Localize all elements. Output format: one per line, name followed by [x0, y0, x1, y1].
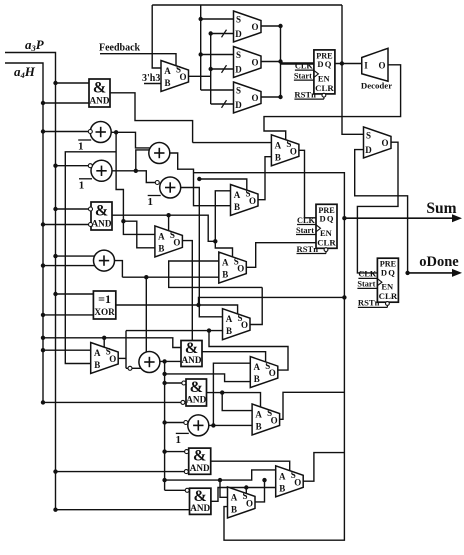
- svg-text:A: A: [255, 410, 262, 420]
- svg-text:B: B: [94, 360, 100, 370]
- svg-text:O: O: [294, 477, 301, 487]
- svg-text:A: A: [275, 140, 282, 150]
- svg-text:D: D: [381, 267, 387, 277]
- svg-text:EN: EN: [320, 228, 333, 238]
- svg-text:Start: Start: [296, 226, 314, 235]
- svg-text:S: S: [236, 50, 241, 60]
- svg-text:D: D: [235, 65, 242, 75]
- svg-text:RSTn: RSTn: [358, 298, 380, 308]
- svg-text:CLR: CLR: [317, 237, 336, 247]
- svg-text:S: S: [236, 15, 241, 25]
- svg-text:A: A: [226, 314, 233, 324]
- svg-text:B: B: [279, 483, 285, 493]
- svg-text:O: O: [173, 237, 180, 247]
- svg-text:RSTn: RSTn: [297, 244, 319, 254]
- svg-text:O: O: [251, 93, 258, 103]
- svg-text:A: A: [158, 231, 165, 241]
- svg-text:AND: AND: [186, 395, 206, 405]
- svg-text:Q: Q: [388, 267, 395, 277]
- svg-text:A: A: [222, 258, 229, 268]
- svg-text:B: B: [158, 243, 164, 253]
- svg-text:B: B: [222, 270, 228, 280]
- svg-text:B: B: [231, 504, 237, 514]
- svg-text:RSTn: RSTn: [294, 89, 316, 99]
- svg-text:AND: AND: [182, 355, 202, 365]
- svg-text:CLK: CLK: [297, 216, 316, 225]
- svg-text:&: &: [93, 79, 106, 96]
- svg-text:B: B: [256, 422, 262, 432]
- svg-text:O: O: [290, 146, 297, 156]
- svg-text:A: A: [279, 471, 286, 481]
- svg-text:O: O: [179, 72, 186, 82]
- svg-text:CLR: CLR: [379, 291, 398, 301]
- svg-text:a4H: a4H: [14, 64, 36, 80]
- svg-text:D: D: [365, 145, 372, 155]
- svg-text:A: A: [231, 492, 238, 502]
- svg-text:O: O: [269, 368, 276, 378]
- svg-text:a3P: a3P: [25, 37, 45, 53]
- svg-text:Feedback: Feedback: [99, 43, 141, 54]
- svg-text:A: A: [254, 362, 261, 372]
- svg-text:B: B: [275, 152, 281, 162]
- svg-text:O: O: [378, 61, 385, 71]
- svg-text:1: 1: [176, 434, 182, 446]
- svg-text:AND: AND: [92, 219, 112, 229]
- svg-text:D: D: [320, 214, 326, 224]
- svg-text:AND: AND: [190, 463, 210, 473]
- svg-text:O: O: [246, 498, 253, 508]
- svg-text:O: O: [241, 320, 248, 330]
- svg-text:EN: EN: [381, 282, 394, 292]
- svg-text:Decoder: Decoder: [361, 81, 392, 91]
- svg-text:O: O: [251, 22, 258, 32]
- svg-text:S: S: [236, 86, 241, 96]
- svg-text:O: O: [381, 138, 388, 148]
- svg-text:1: 1: [79, 179, 85, 191]
- svg-text:1: 1: [147, 196, 153, 208]
- svg-text:S: S: [366, 130, 371, 140]
- svg-text:CLK: CLK: [358, 270, 377, 279]
- svg-text:3'h3: 3'h3: [142, 73, 160, 84]
- svg-text:I: I: [364, 61, 368, 71]
- svg-text:&: &: [190, 379, 203, 396]
- svg-text:D: D: [235, 29, 242, 39]
- svg-text:B: B: [254, 374, 260, 384]
- svg-text:&: &: [95, 202, 108, 219]
- svg-text:1: 1: [78, 141, 84, 153]
- svg-text:Q: Q: [327, 214, 334, 224]
- svg-text:D: D: [317, 59, 323, 69]
- svg-text:oDone: oDone: [419, 254, 459, 270]
- svg-text:D: D: [235, 100, 242, 110]
- svg-text:XOR: XOR: [94, 307, 115, 317]
- svg-text:Start: Start: [294, 71, 312, 80]
- svg-text:Start: Start: [357, 280, 375, 289]
- svg-text:AND: AND: [90, 96, 110, 106]
- svg-text:Sum: Sum: [426, 200, 456, 217]
- svg-text:O: O: [251, 58, 258, 68]
- svg-text:EN: EN: [318, 73, 331, 83]
- svg-text:Q: Q: [325, 59, 332, 69]
- svg-text:O: O: [237, 264, 244, 274]
- svg-text:B: B: [164, 78, 170, 88]
- svg-text:A: A: [164, 66, 171, 76]
- svg-text:O: O: [249, 196, 256, 206]
- svg-text:AND: AND: [190, 503, 210, 513]
- svg-text:CLR: CLR: [315, 83, 334, 93]
- svg-text:A: A: [234, 190, 241, 200]
- svg-text:O: O: [271, 416, 278, 426]
- svg-text:A: A: [94, 348, 101, 358]
- svg-text:O: O: [109, 354, 116, 364]
- svg-text:=1: =1: [98, 292, 111, 306]
- svg-text:CLK: CLK: [295, 61, 314, 70]
- svg-text:B: B: [226, 326, 232, 336]
- svg-text:B: B: [234, 202, 240, 212]
